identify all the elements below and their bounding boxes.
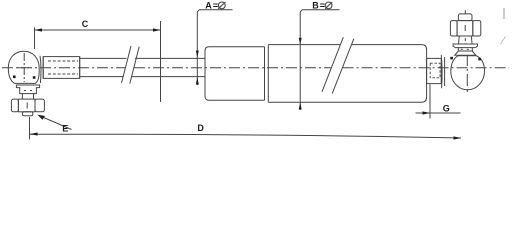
label B = diameter (299, 1, 340, 110)
dimension G line (416, 85, 461, 119)
right ball stud hex nut (450, 21, 480, 36)
right ball stud collar (455, 48, 476, 56)
left socket rim (40, 56, 43, 83)
svg-text:=: = (320, 1, 325, 11)
svg-text:=: = (213, 1, 218, 11)
left stud hex nut (11, 99, 44, 112)
stray scan mark 2 (501, 37, 506, 45)
right ball stud tip (458, 14, 472, 21)
label A = diameter (196, 1, 233, 85)
left stud tip (22, 112, 32, 116)
right ball centerline (465, 10, 467, 92)
cylinder break symbol (322, 37, 354, 93)
left ball joint ball (8, 51, 39, 83)
dimension D line (30, 117, 462, 140)
svg-text:C: C (82, 19, 89, 29)
right socket rim (441, 55, 444, 88)
svg-text:G: G (443, 103, 450, 113)
dimension C line (35, 21, 161, 102)
cylinder section 2 (268, 45, 426, 103)
svg-text:E: E (62, 124, 68, 134)
wire main horizontal centerline (2, 67, 509, 69)
left stud neck (22, 94, 33, 100)
right connector block (427, 58, 442, 83)
left stud collar (16, 85, 39, 94)
label E leader arrow (37, 115, 71, 130)
cylinder section 1 (205, 47, 265, 101)
left threaded sleeve (43, 57, 79, 79)
svg-text:A: A (205, 1, 212, 11)
svg-text:B: B (312, 1, 319, 11)
rod break symbol (122, 46, 140, 84)
svg-text:D: D (197, 123, 204, 133)
right ball stud neck (459, 36, 473, 44)
right ball joint ball (450, 56, 484, 90)
right ball stud washer (453, 44, 477, 48)
piston rod (80, 58, 205, 76)
stray scan mark (503, 8, 505, 19)
